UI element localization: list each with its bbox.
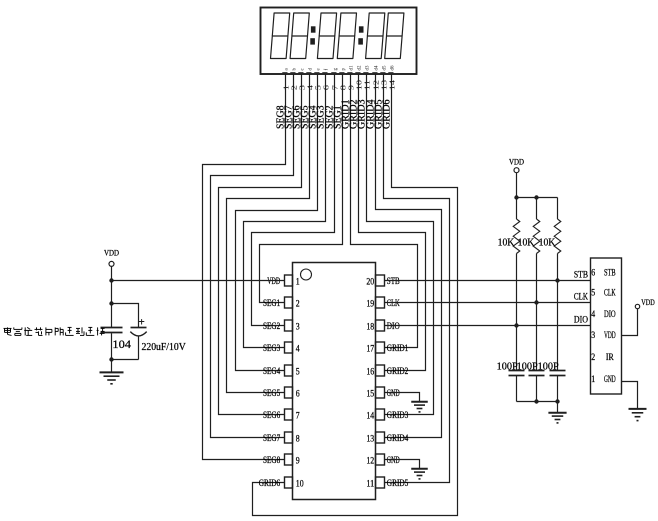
U1 pin 8 number [296, 433, 300, 443]
capacitor C2 220uF/10V (electrolytic) [130, 319, 146, 359]
J1 pin 2 name IR [606, 352, 614, 362]
wire net SEG5 (display pin 4 to U1 pin 6) [227, 74, 310, 393]
wire VDD vertical (left) [111, 266, 113, 327]
display pin-number row (rotated) [282, 80, 397, 91]
svg-text:16: 16 [366, 366, 374, 376]
U1 pin 10 number [296, 478, 304, 488]
ground symbol (left) [100, 372, 124, 383]
svg-text:d1: d1 [350, 65, 355, 71]
U1 pin 7 number [296, 410, 300, 420]
U1 pin 15 box [376, 387, 385, 398]
J1 pin 4 name DIO [604, 309, 616, 319]
U1 pin 13 label GRID4 [387, 433, 409, 443]
svg-text:SEG6: SEG6 [263, 410, 281, 420]
wire net STB (U1 pin20 to J1 pin6) [385, 280, 591, 282]
U1 pin 9 box [285, 454, 293, 465]
svg-text:GRID4: GRID4 [387, 433, 409, 443]
U1 pin-1 indicator circle [301, 269, 312, 280]
svg-text:GRID2: GRID2 [387, 366, 409, 376]
junction (CLK / R2) [534, 300, 538, 304]
wire net CLK (U1 pin19 to J1 pin5) [385, 302, 591, 304]
wire C5 to ground bus [557, 376, 559, 402]
svg-text:1: 1 [296, 276, 300, 286]
svg-text:1: 1 [591, 374, 595, 384]
svg-text:2: 2 [296, 298, 300, 308]
svg-text:104: 104 [112, 337, 131, 351]
svg-text:GRID1: GRID1 [387, 343, 409, 353]
wire net SEG3 (display pin 6 to U1 pin 4) [244, 74, 326, 348]
label C5 value 100P [538, 360, 559, 372]
U1 pin 11 label GRID5 [387, 478, 409, 488]
U1 pin 5 box [285, 365, 293, 376]
svg-text:3: 3 [591, 330, 595, 340]
power VDD symbol (J1) [635, 297, 655, 309]
U1 pin 16 label GRID2 [387, 366, 409, 376]
J1 pin 3 name VDD [604, 330, 616, 340]
U1 pin 3 label SEG2 [263, 321, 280, 331]
svg-text:d6: d6 [391, 65, 396, 71]
svg-text:GRID5: GRID5 [387, 478, 409, 488]
U1 pin 14 box [376, 409, 385, 420]
svg-text:3: 3 [296, 321, 300, 331]
svg-text:5: 5 [296, 366, 300, 376]
svg-text:IR: IR [606, 352, 614, 362]
wire R3 to line [557, 254, 559, 371]
svg-text:DIO: DIO [604, 309, 616, 319]
note text (capacitor close to chip, CJK approximated) [4, 327, 105, 335]
wire to ground (left) [111, 360, 113, 373]
svg-text:CLK: CLK [604, 288, 616, 298]
wire R2 to line [536, 254, 538, 371]
U1 pin 16 box [376, 365, 385, 376]
junction (gnd bus / C4) [534, 399, 538, 403]
op IC U1 body (20-pin LED driver) [293, 263, 376, 500]
J1 pin 5 number [591, 288, 595, 298]
U1 pin 12 number [366, 455, 374, 465]
label C2 value 220uF/10V [142, 342, 187, 353]
U1 pin 3 number [296, 321, 300, 331]
svg-text:d4: d4 [375, 65, 380, 71]
ground symbol (U1 GND) [411, 402, 428, 412]
wire to ground (caps) [557, 402, 559, 413]
svg-text:VDD: VDD [604, 330, 616, 340]
wire net SEG7 (display pin 2 to U1 pin 8) [211, 74, 294, 438]
svg-text:6: 6 [591, 268, 595, 278]
svg-text:GRID3: GRID3 [387, 410, 409, 420]
svg-text:b: b [293, 68, 298, 71]
U1 pin 4 number [296, 343, 300, 353]
svg-text:SEG3: SEG3 [263, 343, 281, 353]
wire net SEG6 (display pin 3 to U1 pin 7) [219, 74, 302, 415]
display digit 6 (7-segment outline) [385, 13, 404, 59]
U1 pin 9 number [296, 455, 300, 465]
svg-text:14: 14 [388, 80, 397, 91]
U1 pin 19 number [366, 298, 374, 308]
resistor R2 10K [533, 219, 540, 254]
svg-text:11: 11 [366, 478, 374, 488]
svg-text:5: 5 [591, 288, 595, 298]
svg-text:VDD: VDD [641, 297, 655, 307]
U1 pin 1 number [296, 276, 300, 286]
svg-text:p: p [342, 68, 347, 71]
svg-text:g: g [334, 68, 339, 71]
svg-text:SEG7: SEG7 [263, 433, 281, 443]
svg-text:15: 15 [366, 388, 374, 398]
label R3 value 10K [539, 236, 556, 248]
wire J1 GND [622, 382, 638, 409]
U1 pin 5 label SEG4 [263, 366, 281, 376]
svg-text:6: 6 [322, 85, 331, 91]
U1 pin 2 number [296, 298, 300, 308]
svg-text:CLK: CLK [574, 292, 588, 302]
junction (ground node) [109, 357, 113, 361]
label C4 value 100P [517, 360, 538, 372]
U1 pin 12 label GND [387, 455, 400, 465]
display colon 2 [358, 26, 363, 44]
label R1 value 10K [498, 236, 515, 248]
svg-text:13: 13 [366, 433, 374, 443]
svg-text:9: 9 [296, 455, 300, 465]
junction (gnd bus / C5) [555, 399, 559, 403]
svg-text:10K: 10K [518, 236, 535, 248]
display digit 4 (7-segment outline) [337, 13, 356, 59]
label CLK at J1 [574, 292, 588, 302]
display pin-name row (rotated, inside box bottom) [282, 65, 395, 72]
svg-text:SEG4: SEG4 [263, 366, 281, 376]
svg-text:10K: 10K [498, 236, 515, 248]
wire net DIO (U1 pin18 to J1 pin4) [385, 325, 591, 327]
wire U1 GND stub [385, 393, 420, 402]
wire net GRID1 (display pin 9 to U1) [351, 74, 418, 348]
svg-text:GND: GND [604, 374, 616, 384]
display digit 5 (7-segment outline) [366, 13, 385, 59]
U1 pin 16 number [366, 366, 374, 376]
U1 pin 10 label GRID6 [259, 478, 281, 488]
J1 pin 6 number [591, 268, 595, 278]
display digit 1 (7-segment outline) [271, 13, 290, 59]
svg-text:VDD: VDD [104, 248, 119, 258]
svg-text:18: 18 [366, 321, 374, 331]
wire U1 GND stub [385, 460, 420, 469]
U1 pin 3 box [285, 320, 293, 331]
wire C2 bottom to junction [112, 359, 139, 361]
resistor R3 10K [554, 219, 561, 254]
U1 pin 17 label GRID1 [387, 343, 409, 353]
connector J1 body [591, 258, 622, 394]
U1 pin 20 box [376, 275, 385, 286]
svg-text:19: 19 [366, 298, 374, 308]
U1 pin 4 box [285, 342, 293, 353]
U1 pin 8 label SEG7 [263, 433, 281, 443]
svg-text:4: 4 [296, 343, 300, 353]
wire pull-up bus [517, 197, 558, 199]
J1 pin 1 number [591, 374, 595, 384]
label C1 value 104 [112, 337, 131, 351]
capacitor C1 104 (ceramic) [101, 328, 123, 360]
U1 pin 20 number [366, 276, 374, 286]
label C3 value 100P [497, 360, 518, 372]
display colon 1 [310, 26, 315, 44]
svg-text:d: d [309, 68, 314, 71]
U1 pin 20 label STB [387, 276, 400, 286]
junction (DIO / R1) [514, 323, 518, 327]
wire bus to R2 [536, 198, 538, 220]
U1 pin 13 box [376, 432, 385, 443]
U1 pin 14 number [366, 410, 374, 420]
J1 pin 1 name GND [604, 374, 616, 384]
U1 pin 1 box [285, 275, 293, 286]
wire C4 to ground bus [536, 376, 538, 402]
wire net SEG4 (display pin 5 to U1 pin 5) [236, 74, 318, 371]
svg-text:100P: 100P [517, 360, 538, 372]
svg-text:8: 8 [296, 433, 300, 443]
svg-text:DIO: DIO [574, 315, 589, 325]
svg-text:a: a [285, 68, 290, 71]
U1 pin 11 number [366, 478, 374, 488]
svg-text:SEG5: SEG5 [263, 388, 281, 398]
wire net GRID2 (display pin 10 to U1) [359, 74, 426, 371]
U1 pin 18 box [376, 320, 385, 331]
U1 pin 7 label SEG6 [263, 410, 281, 420]
svg-text:VDD: VDD [509, 157, 524, 167]
label STB at J1 [574, 270, 588, 280]
net-name row SEG8..SEG1 GRID1..GRID6 (rotated) [276, 100, 393, 130]
J1 pin 6 name STB [604, 268, 616, 278]
U1 pin 9 label SEG8 [263, 455, 281, 465]
svg-text:7: 7 [296, 410, 300, 420]
svg-text:6: 6 [296, 388, 300, 398]
svg-text:STB: STB [574, 270, 588, 280]
ground symbol (U1 GND) [411, 469, 428, 479]
svg-text:220uF/10V: 220uF/10V [142, 342, 187, 353]
U1 pin 10 box [285, 477, 293, 488]
capacitor C4 100P [529, 371, 545, 376]
U1 pin 13 number [366, 433, 374, 443]
U1 pin 19 label CLK [387, 298, 400, 308]
U1 pin 12 box [376, 454, 385, 465]
display digit 3 (7-segment outline) [317, 13, 336, 59]
svg-text:2: 2 [591, 352, 595, 362]
svg-text:11: 11 [363, 80, 372, 91]
wire net GRID6 (display pin 14, bottom loop to U1 pin 10) [253, 74, 458, 516]
svg-text:c: c [301, 68, 306, 71]
wire net SEG2 (display pin 7 to U1 pin 3) [252, 74, 335, 326]
junction (bus/R1) [514, 195, 518, 199]
svg-text:SEG1: SEG1 [263, 298, 280, 308]
U1 pin 6 number [296, 388, 300, 398]
J1 pin 3 number [591, 330, 595, 340]
power VDD symbol (pull-ups) [509, 157, 524, 173]
junction (VDD / pin1 line) [109, 278, 113, 282]
svg-text:100P: 100P [538, 360, 559, 372]
capacitor C5 100P [550, 371, 566, 376]
wire R1 to line [516, 254, 518, 371]
wire branch to C2 [112, 304, 139, 328]
wire VDD to pull-up bus [516, 173, 518, 198]
label DIO at J1 [574, 315, 589, 325]
U1 pin 15 number [366, 388, 374, 398]
U1 pin 6 box [285, 387, 293, 398]
svg-text:20: 20 [366, 276, 374, 286]
wire J1 VDD [622, 309, 638, 336]
U1 pin 18 label DIO [387, 321, 400, 331]
svg-text:4: 4 [591, 309, 595, 319]
wire cap ground bus [517, 401, 558, 403]
U1 pin 17 number [366, 343, 374, 353]
ground symbol (caps) [548, 413, 566, 423]
U1 pin 4 label SEG3 [263, 343, 281, 353]
junction (VDD / C2 branch) [109, 301, 113, 305]
svg-text:d3: d3 [366, 65, 371, 71]
svg-text:10K: 10K [539, 236, 556, 248]
U1 pin 2 box [285, 297, 293, 308]
wire net GRID5 (display pin 13 to U1) [384, 74, 450, 483]
wire bus to R3 [557, 198, 559, 220]
resistor R1 10K [513, 219, 520, 254]
svg-text:GRID6: GRID6 [259, 478, 281, 488]
capacitor C3 100P [509, 371, 525, 376]
svg-text:14: 14 [366, 410, 374, 420]
svg-text:17: 17 [366, 343, 374, 353]
svg-text:d5: d5 [383, 65, 388, 71]
U1 pin 15 label GND [387, 388, 400, 398]
U1 pin 8 box [285, 432, 293, 443]
wire net GRID4 (display pin 12 to U1) [376, 74, 442, 438]
svg-text:d2: d2 [358, 65, 363, 71]
LED display DS1 body [261, 8, 417, 75]
wire C3 to ground bus [516, 376, 518, 402]
U1 pin 5 number [296, 366, 300, 376]
wire net SEG8 (display pin 1 to U1 pin 9) [203, 74, 286, 460]
U1 pin 14 label GRID3 [387, 410, 409, 420]
svg-text:100P: 100P [497, 360, 518, 372]
svg-text:12: 12 [366, 455, 374, 465]
ground symbol (J1) [629, 409, 647, 421]
U1 pin 6 label SEG5 [263, 388, 281, 398]
J1 pin 4 number [591, 309, 595, 319]
U1 pin 2 label SEG1 [263, 298, 280, 308]
svg-text:STB: STB [604, 268, 616, 278]
U1 pin 19 box [376, 297, 385, 308]
svg-text:10: 10 [296, 478, 304, 488]
wire VDD to U1 pin 1 [112, 280, 285, 282]
junction (bus/R2) [534, 195, 538, 199]
U1 pin 18 number [366, 321, 374, 331]
wire net SEG1 (display pin 8 to U1 pin 2) [260, 74, 343, 303]
wire bus to R1 [516, 198, 518, 220]
U1 pin 7 box [285, 409, 293, 420]
label R2 value 10K [518, 236, 535, 248]
display digit 2 (7-segment outline) [290, 13, 309, 59]
U1 pin 11 box [376, 477, 385, 488]
J1 pin 5 name CLK [604, 288, 616, 298]
junction (STB / R3) [555, 278, 559, 282]
svg-text:f: f [325, 69, 330, 71]
J1 pin 2 number [591, 352, 595, 362]
U1 pin 17 box [376, 342, 385, 353]
U1 pin 1 label VDD [267, 276, 280, 286]
svg-text:e: e [317, 68, 322, 71]
wire net GRID3 (display pin 11 to U1) [367, 74, 434, 415]
svg-text:SEG8: SEG8 [263, 455, 281, 465]
svg-text:SEG2: SEG2 [263, 321, 280, 331]
power VDD symbol (left) [104, 248, 119, 267]
svg-text:GRID6: GRID6 [382, 100, 393, 130]
